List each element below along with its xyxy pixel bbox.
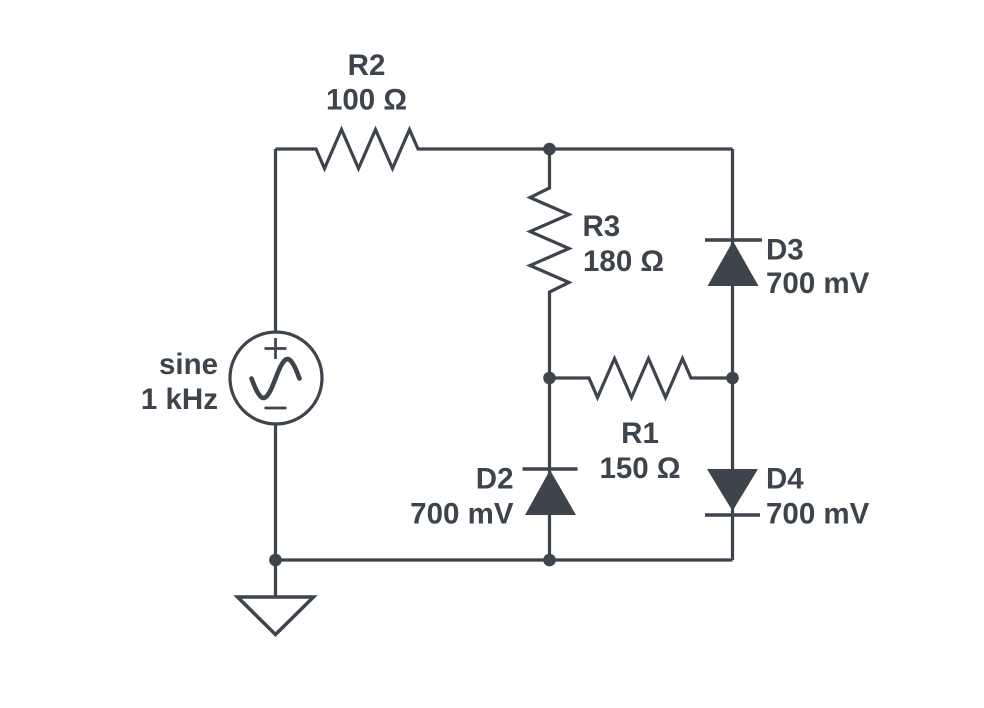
svg-text:150 Ω: 150 Ω xyxy=(599,452,680,485)
svg-text:180 Ω: 180 Ω xyxy=(583,245,664,278)
svg-text:D4: D4 xyxy=(766,462,804,495)
svg-text:D3: D3 xyxy=(766,234,804,267)
svg-text:R2: R2 xyxy=(348,49,386,82)
svg-text:R1: R1 xyxy=(621,417,659,450)
svg-text:100 Ω: 100 Ω xyxy=(326,84,407,117)
svg-text:700 mV: 700 mV xyxy=(766,267,870,300)
svg-text:700 mV: 700 mV xyxy=(410,497,514,530)
svg-text:D2: D2 xyxy=(476,462,514,495)
svg-text:sine: sine xyxy=(159,348,218,381)
svg-text:700 mV: 700 mV xyxy=(766,497,870,530)
svg-text:R3: R3 xyxy=(583,210,621,243)
svg-text:1 kHz: 1 kHz xyxy=(141,383,218,416)
